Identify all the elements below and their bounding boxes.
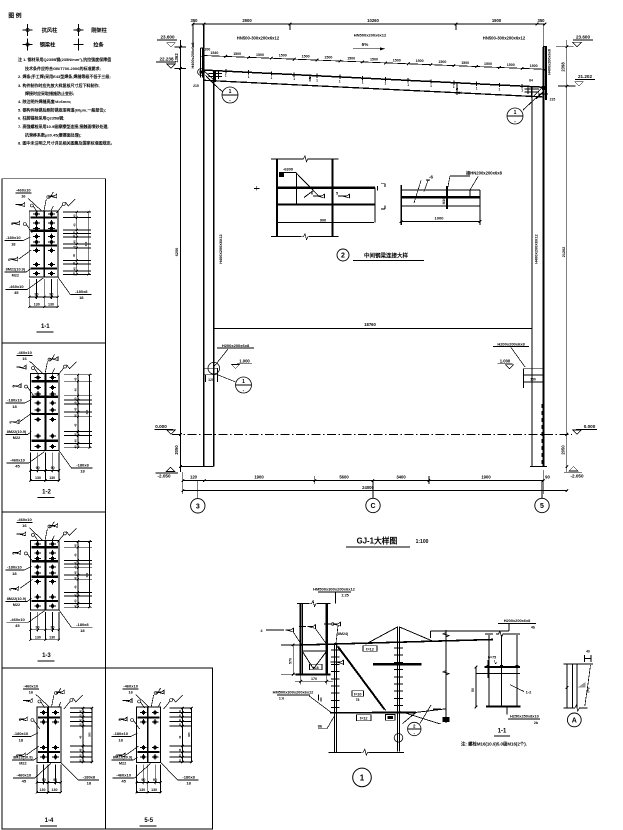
svg-text:-6: -6 (429, 175, 433, 180)
plate outline 1-2 (31, 374, 60, 451)
svg-text:t=8: t=8 (313, 666, 319, 670)
left column base (180, 466, 213, 468)
svg-text:45: 45 (121, 778, 126, 783)
svg-text:90: 90 (53, 778, 57, 782)
svg-text:-2.050: -2.050 (570, 474, 583, 479)
svg-text:90: 90 (51, 625, 55, 629)
svg-text:40: 40 (73, 377, 77, 380)
svg-text:抗风柱: 抗风柱 (42, 26, 58, 34)
svg-text:M22: M22 (13, 603, 20, 607)
svg-text:-460x10: -460x10 (116, 772, 131, 777)
gusset bolt label (443, 717, 450, 722)
svg-text:-460x10: -460x10 (9, 284, 24, 289)
right knee bolt ticks (525, 88, 540, 90)
plate web 1-3 (44, 540, 46, 609)
right column cap (543, 46, 547, 48)
detail A dim line (566, 664, 568, 708)
svg-text:注 1. 钢材采用Q235B钢(235N/mm²),抗拉强度: 注 1. 钢材采用Q235B钢(235N/mm²),抗拉强度保障值 (18, 56, 111, 62)
svg-text:H400x200x6x8: H400x200x6x8 (191, 43, 195, 69)
svg-text:C: C (370, 503, 375, 510)
tie beam splice plate (446, 186, 448, 209)
detail A weld triangle (578, 682, 586, 688)
svg-text:4b: 4b (444, 718, 448, 722)
svg-text:-180x8: -180x8 (182, 774, 195, 779)
top dim ext x290 (289, 24, 291, 30)
svg-text:350: 350 (538, 18, 546, 23)
svg-text:1500: 1500 (279, 54, 287, 58)
section dim left (475, 667, 477, 707)
apex splice bolt ticks (394, 647, 403, 649)
svg-text:78: 78 (356, 698, 360, 702)
bottom dim line 1 (183, 480, 544, 482)
svg-text:中间钢梁连接大样: 中间钢梁连接大样 (364, 252, 409, 260)
knee V gusset (302, 652, 313, 669)
left girt leader to callout (217, 375, 235, 382)
left girt bolt circle (208, 362, 220, 374)
top dimension line (193, 23, 545, 25)
svg-text:120: 120 (208, 378, 214, 382)
svg-text:A: A (572, 718, 577, 725)
svg-text:40: 40 (178, 723, 182, 726)
svg-text:40: 40 (73, 599, 77, 602)
plate web 1-4 (47, 707, 49, 762)
section splice plate (485, 666, 521, 668)
knee callout small (408, 722, 421, 735)
svg-text:1:6: 1:6 (279, 697, 284, 701)
svg-text:40: 40 (72, 234, 76, 237)
svg-text:130: 130 (49, 635, 55, 639)
svg-text:1-2: 1-2 (42, 490, 51, 496)
knee section cut line (401, 712, 440, 724)
left knee leader (216, 86, 223, 92)
t=12 label upper (363, 646, 377, 652)
svg-text:90: 90 (141, 778, 145, 782)
svg-text:H250x250x8x10: H250x250x8x10 (510, 714, 539, 719)
purlin marks on rafter (225, 69, 227, 73)
svg-text:40: 40 (73, 407, 77, 410)
elevation -2.050 right (569, 467, 578, 471)
right girt stub (523, 369, 542, 382)
right knee diagonal hatch (533, 87, 543, 97)
svg-text:40: 40 (73, 571, 77, 574)
tie beam left end (400, 185, 402, 225)
flange bar 2 1-3 (31, 560, 58, 562)
detail 2 bubble (337, 249, 349, 261)
svg-text:6250: 6250 (175, 248, 179, 256)
svg-text:5: 5 (540, 503, 544, 510)
knee bottom break (329, 751, 362, 753)
svg-text:H400X200X8X12: H400X200X8X12 (219, 234, 223, 263)
svg-text:18: 18 (19, 738, 24, 743)
svg-text:16: 16 (22, 523, 27, 528)
svg-text:2. 焊条(手工焊)采用E43型焊条,焊缝等级不低于三级;: 2. 焊条(手工焊)采用E43型焊条,焊缝等级不低于三级; (18, 73, 111, 79)
stub mark left mid (254, 187, 260, 189)
knee flag 2 (308, 625, 316, 629)
svg-text:130: 130 (151, 788, 157, 792)
right column outer flange (543, 47, 545, 467)
svg-text:1: 1 (225, 74, 227, 78)
svg-text:-180x8: -180x8 (83, 774, 96, 779)
svg-text:1:100: 1:100 (416, 539, 429, 545)
splice top edge (271, 158, 301, 160)
svg-text:18: 18 (79, 295, 84, 300)
flange bar 1 1-3 (31, 546, 58, 548)
svg-text:40: 40 (72, 214, 76, 217)
svg-text:5600: 5600 (339, 474, 349, 479)
svg-text:5%: 5% (362, 42, 369, 47)
tie leader 2 (414, 181, 421, 204)
mid purlin bar (373, 663, 422, 665)
svg-text:18760: 18760 (364, 322, 376, 327)
svg-text:40: 40 (178, 754, 182, 757)
detail A plate (572, 664, 574, 708)
bottom dim ticks (182, 479, 185, 482)
bolt group 1-3 (34, 543, 41, 545)
beam end vertical mid (374, 188, 376, 223)
detail A top line (564, 663, 594, 665)
svg-text:接HN200x200x6x8: 接HN200x200x6x8 (466, 170, 503, 177)
svg-text:16: 16 (29, 690, 34, 695)
svg-text:40: 40 (73, 561, 77, 564)
svg-text:1: 1 (242, 379, 245, 385)
svg-text:90: 90 (36, 466, 40, 470)
knee flag 1 (286, 628, 294, 632)
section bottom label leader (506, 707, 508, 715)
bottom dim ext lines (182, 472, 184, 494)
knee column base plate (296, 673, 331, 675)
svg-text:570: 570 (288, 658, 292, 664)
svg-text:40: 40 (74, 401, 78, 404)
left knee bolt (198, 69, 205, 76)
svg-text:1-2: 1-2 (526, 690, 533, 695)
flange bar 3 1-3 (31, 576, 58, 578)
plate web 1-2 (45, 374, 47, 451)
knee small marks (318, 695, 320, 701)
svg-text:16: 16 (21, 194, 26, 199)
svg-text:90: 90 (35, 293, 39, 297)
svg-text:-180x10: -180x10 (6, 235, 21, 240)
svg-text:40: 40 (73, 397, 77, 400)
flange bar 4 1-3 (31, 600, 58, 602)
svg-text:-180x10: -180x10 (7, 564, 22, 569)
svg-text:-180x8: -180x8 (76, 463, 89, 468)
flange bar 2 5-5 (138, 751, 160, 753)
svg-text:M16: M16 (442, 198, 446, 205)
svg-text:1.000: 1.000 (500, 359, 511, 364)
svg-text:90: 90 (49, 293, 53, 297)
svg-text:40: 40 (74, 423, 78, 426)
svg-text:130: 130 (49, 476, 55, 480)
svg-text:40: 40 (73, 439, 77, 442)
left dim ticks elev (179, 46, 182, 49)
svg-text:40: 40 (73, 388, 77, 391)
right girt ext (522, 382, 524, 388)
knee column left flange (299, 604, 301, 675)
plate web 1-1 (43, 211, 45, 277)
svg-text:1: 1 (453, 85, 455, 89)
svg-text:380: 380 (187, 732, 191, 737)
svg-text:H400X200X8X12: H400X200X8X12 (535, 234, 539, 263)
svg-text:45: 45 (14, 290, 19, 295)
apex gusset right (400, 627, 433, 641)
svg-text:40: 40 (178, 735, 182, 738)
svg-text:21202: 21202 (562, 247, 566, 258)
plate outline 1-4 (37, 707, 61, 762)
elevation -2.050 left (166, 467, 175, 471)
svg-text:170: 170 (311, 677, 317, 681)
svg-text:1: 1 (521, 89, 523, 93)
tie dim line (401, 221, 480, 223)
knee callout leader a (403, 713, 416, 724)
svg-text:4. 除注明外焊缝高度hf=6mm;: 4. 除注明外焊缝高度hf=6mm; (18, 98, 71, 104)
level 0.000 dash-dot line (172, 433, 572, 435)
top dim ext left (192, 24, 194, 47)
svg-text:-460x10: -460x10 (16, 188, 31, 193)
svg-text:焊接时应采取措施防止变形;: 焊接时应采取措施防止变形; (25, 90, 74, 96)
left column outer flange (203, 24, 205, 467)
svg-text:22.238: 22.238 (159, 57, 173, 62)
right column inner flange (531, 87, 533, 467)
svg-text:H200x200x6x8: H200x200x6x8 (497, 342, 525, 347)
bolt group 1-4 (40, 712, 47, 714)
svg-text:18: 18 (186, 780, 191, 785)
flange bar 1 1-4 (38, 716, 60, 718)
svg-text:1: 1 (514, 110, 517, 116)
svg-text:1: 1 (476, 86, 478, 90)
left girt stub ext (204, 375, 206, 382)
svg-text:1.000: 1.000 (239, 359, 250, 364)
haunch vertical (296, 172, 298, 204)
tie beam top (401, 189, 480, 191)
flange bar 2 1-2 (32, 396, 59, 398)
svg-text:1500: 1500 (507, 63, 515, 67)
girt line 18760 (214, 328, 532, 330)
svg-text:10260: 10260 (367, 18, 379, 23)
corner mark bottom (381, 208, 385, 210)
knee column top break (297, 603, 309, 605)
detail box border 1-2 (2, 343, 106, 512)
dark box lower (386, 715, 396, 721)
detail A bottom line (564, 707, 574, 709)
svg-text:1: 1 (293, 77, 295, 81)
left girt stub (204, 368, 218, 375)
knee horiz dim (300, 674, 302, 684)
svg-text:3400: 3400 (396, 474, 406, 479)
detail box border 1-5 (106, 668, 213, 829)
svg-text:1-4: 1-4 (45, 818, 54, 824)
section 1-1 label leader (508, 624, 510, 631)
svg-text:40: 40 (72, 240, 76, 243)
slope arrow (353, 48, 385, 50)
svg-text:8M22(10.9): 8M22(10.9) (7, 430, 27, 434)
rafter top flange (203, 70, 546, 87)
svg-text:40: 40 (72, 253, 76, 256)
right knee stiffener (531, 86, 533, 98)
svg-text:M22: M22 (12, 274, 19, 278)
svg-text:1-1: 1-1 (41, 324, 50, 330)
leader flags right 1-3 (50, 524, 58, 528)
section lower plate (486, 673, 520, 675)
svg-text:40: 40 (73, 445, 77, 448)
svg-text:0.000: 0.000 (584, 424, 596, 429)
svg-text:130: 130 (35, 476, 41, 480)
svg-text:6: 6 (311, 192, 313, 196)
tie beam right end (479, 190, 481, 206)
tie leader 3 (450, 175, 470, 177)
flange bar 3 1-2 (32, 413, 59, 415)
svg-text:注: 螺栓M16(10.9)5.0级M16(2个).: 注: 螺栓M16(10.9)5.0级M16(2个). (461, 740, 527, 747)
apex splice plate (396, 627, 398, 752)
svg-text:HM500x300x200x6x12: HM500x300x200x6x12 (273, 689, 315, 694)
svg-text:40: 40 (78, 718, 82, 721)
svg-text:t=12: t=12 (360, 717, 368, 721)
svg-text:40: 40 (178, 718, 182, 721)
flange bar 2 1-1 (30, 230, 57, 232)
svg-text:1500: 1500 (233, 52, 241, 56)
svg-text:350: 350 (191, 18, 199, 23)
knee t=8 label (310, 664, 323, 670)
flange bar 3 1-1 (30, 244, 57, 246)
plate web 5-5 (147, 707, 149, 762)
right dim ticks elev (566, 45, 569, 48)
splice bottom edge (271, 236, 301, 238)
svg-text:1500: 1500 (484, 62, 492, 66)
svg-text:40: 40 (178, 714, 182, 717)
detail box border 1-3 (2, 512, 106, 668)
t=10 label (352, 691, 364, 697)
svg-text:2050: 2050 (561, 445, 566, 455)
svg-text:8b: 8b (318, 724, 323, 728)
svg-text:14: 14 (458, 91, 462, 95)
flange bar 4 1-2 (32, 440, 59, 442)
bolt group 1-2 (34, 376, 41, 378)
legend symbol brace (23, 44, 33, 46)
svg-text:1900: 1900 (254, 474, 264, 479)
top dim ext x456 (455, 24, 457, 30)
svg-text:40: 40 (78, 714, 82, 717)
svg-text:1: 1 (407, 83, 409, 87)
svg-text:90: 90 (545, 474, 550, 479)
svg-text:40: 40 (73, 414, 77, 417)
end plate splice detail (333, 645, 335, 753)
svg-text:40: 40 (78, 709, 82, 712)
svg-text:M22: M22 (119, 762, 126, 766)
tie beam mid (401, 196, 480, 198)
svg-text:HN500-300x200x6x12: HN500-300x200x6x12 (483, 36, 526, 41)
splice right chord (331, 159, 333, 237)
section bolts (486, 665, 489, 668)
legend symbol tie (74, 44, 84, 46)
svg-text:40: 40 (73, 544, 77, 547)
section base plate (486, 706, 521, 708)
anchor dashes right column (542, 404, 544, 465)
svg-text:90: 90 (51, 466, 55, 470)
svg-text:8. 图中未注明之尺寸详见相关图集及国家标准图规定。: 8. 图中未注明之尺寸详见相关图集及国家标准图规定。 (18, 140, 114, 146)
svg-text:40: 40 (78, 735, 82, 738)
knee vert dim (292, 645, 294, 674)
svg-text:2398: 2398 (561, 62, 566, 72)
haunch leader diag (314, 191, 319, 197)
bottom dimensions 5-5 (136, 764, 138, 792)
tie beam bottom (401, 205, 480, 207)
svg-text:-460x10: -460x10 (17, 517, 32, 522)
right knee leader (523, 94, 541, 110)
svg-text:3: 3 (196, 503, 200, 510)
svg-text:90: 90 (42, 778, 46, 782)
legend symbol steel column (23, 29, 33, 31)
svg-text:380: 380 (85, 572, 89, 577)
svg-text:18: 18 (80, 628, 85, 633)
svg-text:1-3: 1-3 (42, 653, 51, 659)
svg-text:8M22(10.9): 8M22(10.9) (7, 597, 27, 601)
svg-text:40: 40 (78, 759, 82, 762)
leader flags right 5-5 (156, 690, 164, 694)
svg-text:t=6: t=6 (587, 687, 591, 692)
side elevation ladder 1-4 (70, 707, 92, 709)
legend symbol wind column (74, 29, 84, 31)
left knee bolt ticks (209, 72, 223, 74)
svg-text:1500: 1500 (302, 55, 310, 59)
purlin spacing dimension line (203, 56, 545, 70)
svg-text:8M22(10.9): 8M22(10.9) (6, 268, 26, 272)
svg-text:23.600: 23.600 (576, 35, 590, 40)
svg-text:40: 40 (72, 223, 76, 226)
svg-text:-460x10: -460x10 (17, 772, 32, 777)
svg-text:-6300: -6300 (283, 166, 294, 171)
section flange right (516, 635, 518, 707)
weld flag mid 1 (317, 194, 325, 198)
svg-text:64: 64 (529, 79, 533, 83)
flange bar 2 1-4 (38, 751, 60, 753)
svg-text:380: 380 (87, 732, 91, 737)
svg-text:40: 40 (586, 650, 590, 654)
svg-text:b=75: b=75 (488, 656, 496, 660)
svg-text:1: 1 (430, 84, 432, 88)
grid bubble 3 (197, 481, 199, 499)
beam top flange mid (277, 187, 375, 189)
section flange left (488, 635, 490, 707)
svg-text:-180x10: -180x10 (14, 731, 29, 736)
bolt group 5-5 (140, 712, 147, 714)
plate outline 5-5 (137, 707, 161, 762)
svg-text:130: 130 (52, 788, 58, 792)
knee V gusset top (302, 650, 327, 652)
svg-text:40: 40 (73, 576, 77, 579)
side elevation ladder 1-1 (63, 211, 91, 213)
detail 1 bubble (353, 768, 372, 787)
svg-text:-180x10: -180x10 (7, 398, 22, 403)
svg-text:钢梁柱: 钢梁柱 (40, 41, 56, 49)
knee label leader (335, 593, 337, 604)
right knee bolt cluster (542, 86, 547, 90)
svg-text:1900: 1900 (492, 18, 502, 23)
svg-text:8M22(10.9): 8M22(10.9) (113, 756, 133, 760)
svg-text:18: 18 (80, 469, 85, 474)
mid rafter stay 1 (309, 76, 311, 82)
svg-text:40: 40 (73, 593, 77, 596)
svg-text:1500: 1500 (370, 57, 378, 61)
rafter bottom flange (204, 80, 544, 97)
svg-text:50: 50 (471, 688, 475, 692)
flange bar 1 1-2 (32, 380, 59, 382)
plate outline 1-3 (30, 540, 59, 609)
svg-text:1: 1 (385, 82, 387, 86)
tie leader 4 (470, 177, 478, 191)
svg-text:2: 2 (341, 253, 345, 260)
svg-text:H200x200x6x8: H200x200x6x8 (504, 618, 531, 623)
leader flags right 1-4 (57, 690, 65, 694)
left elevation ext line (179, 40, 181, 472)
